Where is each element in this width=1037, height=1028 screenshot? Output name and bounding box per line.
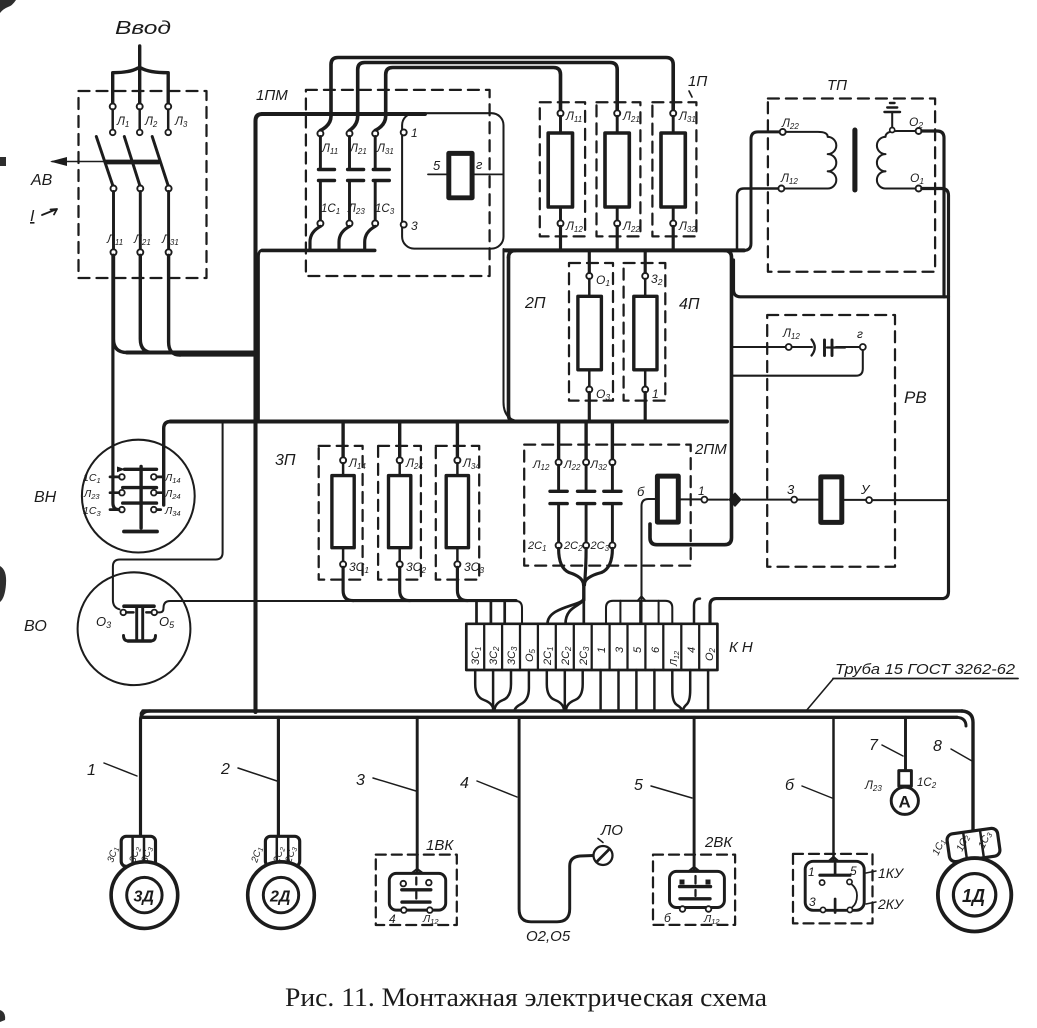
svg-text:2С3: 2С3	[590, 540, 610, 553]
svg-text:3Д: 3Д	[134, 889, 155, 906]
wire bundle right end to motor 1Д	[962, 711, 973, 830]
wire О5 to terminal block	[157, 601, 522, 624]
switch 1ВК dashed box	[376, 855, 457, 925]
svg-text:1ПМ: 1ПМ	[256, 87, 288, 104]
wire bus riser to ТП Л22	[744, 132, 780, 251]
transformer ТП primary winding	[784, 132, 836, 189]
svg-text:Л22: Л22	[622, 221, 640, 234]
fuse 1П-1	[548, 110, 572, 250]
svg-text:4П: 4П	[679, 296, 700, 313]
svg-text:ЛО: ЛО	[600, 822, 623, 839]
contactor 2ПМ NC contact 3	[604, 422, 621, 549]
fuse 4П	[634, 250, 657, 421]
svg-text:2ПМ: 2ПМ	[694, 441, 727, 458]
wire block bottom lead О2	[707, 670, 709, 711]
wire 1ПМ phase C to fuse 1П-1	[375, 68, 560, 131]
wire 2С bundle to block	[582, 583, 585, 600]
wire drop 6 to switch КУ	[832, 717, 834, 861]
main vertical bus	[256, 114, 263, 712]
breaker АВ dashed box	[79, 91, 207, 278]
switch ВО terminal О3	[121, 610, 127, 616]
switch 2ВК dashed box	[653, 855, 735, 925]
РВ contact terminal 2	[860, 344, 866, 350]
fuse 2П	[578, 250, 602, 421]
svg-text:б: б	[637, 484, 645, 499]
svg-text:О2: О2	[909, 115, 923, 130]
relay РВ dashed box	[767, 315, 895, 567]
wire block bottom leads 1 3 5 6	[601, 670, 655, 711]
breaker АВ blade 2	[124, 137, 140, 188]
wire 1ПМ bottom bus	[262, 249, 375, 253]
bell А	[891, 787, 918, 814]
svg-text:Л12: Л12	[780, 173, 798, 186]
svg-text:РВ: РВ	[904, 388, 927, 407]
switch ВО terminal О5	[152, 610, 158, 616]
fuse 3П dashed box 3	[436, 446, 479, 580]
svg-text:8: 8	[933, 738, 942, 755]
fuse 3П-1	[332, 422, 354, 601]
wire О2 to right bus	[922, 131, 944, 297]
svg-text:2КУ: 2КУ	[877, 896, 905, 912]
svg-text:Л34: Л34	[462, 458, 480, 471]
wire left bus to main vertical	[127, 350, 254, 354]
svg-text:6: 6	[650, 646, 662, 653]
motor 1Д terminal box	[946, 828, 1000, 863]
svg-text:5: 5	[433, 158, 441, 173]
switch ВН right terminals	[151, 474, 164, 512]
wire drop 7 to bell А	[904, 717, 907, 770]
wire 1ПМ bottom contact 2 to bus	[339, 226, 350, 250]
wire 2С2 down	[585, 548, 587, 585]
contactor 1ПМ contact 3	[372, 131, 389, 227]
switch ВН shaft and bars	[117, 466, 157, 531]
wire 1ПМ bottom bus corner down	[259, 250, 263, 421]
svg-text:4: 4	[686, 647, 698, 653]
svg-text:Л32: Л32	[678, 221, 696, 234]
wire У to right bus	[872, 499, 948, 501]
2ПМ coil terminal 1	[701, 497, 707, 503]
svg-text:1: 1	[808, 865, 815, 879]
coil 1ПМ winding	[449, 153, 472, 197]
svg-text:Ввод: Ввод	[115, 18, 171, 38]
wire coil 2ПМ б terminal to block	[642, 499, 658, 624]
fuse 1П dashed box 3	[652, 102, 696, 236]
svg-text:О1: О1	[596, 273, 610, 288]
svg-text:Л31: Л31	[678, 111, 696, 124]
svg-text:3С2: 3С2	[406, 560, 426, 575]
pipe bundle (two parallel lines)	[143, 709, 962, 712]
wire block drop 3С1	[475, 601, 478, 624]
switch 1ВК body	[389, 869, 445, 913]
breaker АВ trip bar	[106, 160, 159, 165]
svg-text:О5: О5	[159, 614, 175, 630]
wire РВ contact return	[732, 350, 863, 376]
svg-text:1: 1	[87, 762, 96, 779]
transformer ТП core	[852, 130, 857, 190]
wire drop 2 to motor 2Д	[277, 717, 280, 835]
contactor 1ПМ dashed box	[306, 90, 490, 276]
terminal block КН	[466, 624, 717, 670]
svg-text:Л1: Л1	[116, 116, 129, 129]
wire РВ terminal 3 to coil	[797, 499, 820, 501]
svg-text:2ВК: 2ВК	[704, 834, 733, 851]
wire block bottom lead О5	[515, 670, 529, 711]
svg-text:Л12: Л12	[565, 221, 583, 234]
breaker АВ blade bottom contacts	[111, 186, 117, 192]
wire О1 to right bus	[710, 189, 949, 624]
svg-text:3С3: 3С3	[464, 560, 484, 575]
wire bundle left vertical	[509, 257, 516, 421]
wire 1ПМ phase A to fuse 1П-3	[320, 58, 673, 131]
breaker АВ pole terminals top	[110, 104, 116, 110]
svg-text:3: 3	[356, 772, 365, 789]
switch ВО circle	[78, 572, 191, 685]
breaker АВ bottom terminals	[111, 249, 117, 255]
svg-text:7: 7	[869, 737, 879, 754]
svg-text:О3: О3	[596, 387, 610, 402]
svg-text:АВ: АВ	[30, 172, 53, 189]
svg-text:32: 32	[651, 272, 663, 287]
fuse 1П-2	[605, 110, 629, 250]
contactor 2ПМ dashed box	[524, 445, 691, 566]
transformer ТП primary terminal Л12	[778, 186, 784, 192]
wire 2С3 down	[584, 548, 612, 585]
svg-text:Л21: Л21	[622, 111, 640, 124]
svg-text:1КУ: 1КУ	[878, 865, 905, 881]
svg-text:2С1: 2С1	[527, 540, 547, 553]
svg-text:1С1: 1С1	[83, 472, 101, 485]
switch ВО symbol	[124, 606, 156, 641]
fuse 3П-3	[446, 422, 468, 601]
svg-text:1ВК: 1ВК	[426, 837, 454, 854]
wire ТП bottom bus	[734, 260, 949, 297]
svg-text:Труба 15 ГОСТ 3262-62: Труба 15 ГОСТ 3262-62	[835, 662, 1015, 678]
svg-text:У: У	[860, 482, 871, 497]
svg-text:2П: 2П	[524, 295, 546, 312]
lamp ЛО	[594, 846, 613, 865]
switch КУ body	[805, 857, 864, 913]
motor 3Д terminal box	[121, 836, 155, 866]
svg-text:Л23: Л23	[83, 488, 100, 501]
svg-text:3П: 3П	[275, 452, 296, 469]
breaker АВ blade 3	[152, 137, 168, 188]
svg-text:3: 3	[614, 646, 626, 653]
wire 1ПМ bottom contact 3 to bus	[365, 226, 376, 250]
transformer ТП secondary terminal О2	[916, 128, 922, 134]
svg-text:2С1: 2С1	[249, 845, 265, 865]
transformer ТП primary terminal Л22	[780, 129, 786, 135]
wire block bottom leads group 3С	[475, 670, 493, 711]
wire 3С bus to block	[353, 599, 516, 602]
РВ coil terminal У	[866, 497, 872, 503]
svg-text:5: 5	[634, 777, 643, 794]
breaker АВ lower leads	[114, 192, 169, 250]
fuse 3П-2	[389, 422, 411, 601]
junction diamond	[729, 493, 741, 506]
fuse 4П dashed box	[624, 263, 666, 401]
breaker АВ pole leads	[113, 110, 169, 130]
svg-text:5: 5	[850, 864, 857, 878]
wire control bus horizontal	[171, 420, 728, 424]
wire 2С1 down	[559, 548, 584, 585]
wire drop 5 to switch 2ВК	[693, 717, 696, 869]
svg-text:Л2: Л2	[144, 116, 158, 129]
svg-text:ВО: ВО	[24, 618, 47, 635]
svg-text:б: б	[664, 911, 672, 925]
svg-text:Л23: Л23	[864, 780, 882, 793]
breaker АВ actuator arrow	[52, 161, 158, 163]
svg-text:1П: 1П	[688, 73, 707, 90]
svg-text:3С1: 3С1	[105, 845, 121, 864]
svg-text:Л22: Л22	[781, 118, 799, 131]
svg-text:Л23: Л23	[347, 203, 365, 216]
fuse 3П dashed box 1	[319, 446, 363, 580]
svg-text:Л11: Л11	[321, 143, 338, 156]
svg-text:б: б	[785, 777, 795, 794]
wire 1ПМ bottom contact 1 to bus	[310, 226, 320, 250]
svg-text:2: 2	[220, 761, 230, 778]
motor 2Д	[248, 862, 315, 929]
wire block bottom leads group 2С	[547, 670, 564, 711]
wire branch to block cell 4	[694, 599, 700, 624]
fuse 1П dashed box 2	[597, 102, 641, 236]
wire АВ phase 3 to left bus	[169, 255, 180, 355]
wire block drop 3С2	[490, 601, 493, 624]
РВ contact terminal Л12	[786, 344, 792, 350]
svg-text:2С2: 2С2	[563, 540, 583, 553]
svg-text:3: 3	[787, 482, 795, 497]
motor 1Д	[938, 858, 1011, 931]
svg-text:1С3: 1С3	[83, 505, 101, 518]
contactor 2ПМ NC contact 1	[550, 422, 567, 549]
transformer ТП secondary winding	[877, 131, 916, 189]
wire control bus drop to ВО О3	[113, 423, 223, 609]
svg-text:Л3: Л3	[174, 116, 188, 129]
wire drop 1 to motor 3Д	[141, 711, 151, 835]
wire bundle right vertical	[650, 250, 732, 544]
svg-text:Л24: Л24	[164, 488, 181, 501]
svg-text:1С1: 1С1	[321, 203, 340, 216]
wire АВ phase 1 to left bus	[114, 255, 128, 352]
svg-text:1С2: 1С2	[917, 777, 937, 790]
svg-text:Л32: Л32	[590, 459, 608, 472]
wire fuse bottom bus	[505, 248, 744, 252]
wire split left	[113, 68, 138, 106]
wire block drop 3С3	[503, 601, 506, 624]
svg-text:1Д: 1Д	[962, 886, 985, 906]
svg-text:Рис. 11. Монтажная электричес: Рис. 11. Монтажная электрическая схема	[285, 983, 767, 1012]
transformer ТП secondary terminal О1	[916, 186, 922, 192]
motor 2Д terminal box	[265, 836, 299, 866]
wire coil 2ПМ terminal 1 to diamond	[708, 499, 729, 501]
svg-text:О1: О1	[910, 171, 924, 186]
contactor 1ПМ contact 1	[317, 131, 334, 227]
switch КУ dashed box	[793, 854, 873, 924]
svg-text:ТП: ТП	[827, 77, 847, 94]
svg-text:Л11: Л11	[565, 111, 582, 124]
svg-text:5: 5	[632, 646, 644, 653]
switch ВН circle	[82, 440, 195, 553]
wire 1ПМ phase B to fuse 1П-2	[350, 63, 618, 131]
breaker АВ blade 1	[96, 137, 113, 188]
coil block 1ПМ outer loop	[402, 113, 503, 248]
wire block comb cells 1-Л12	[606, 601, 672, 624]
svg-text:О3: О3	[96, 614, 111, 630]
svg-text:I: I	[30, 208, 35, 225]
wire coil 2ПМ to terminal 1	[678, 498, 701, 500]
svg-text:А: А	[899, 793, 911, 812]
svg-text:3С1: 3С1	[349, 560, 369, 575]
bell А holder	[899, 771, 912, 787]
svg-text:Л34: Л34	[164, 505, 181, 518]
svg-text:1: 1	[411, 126, 418, 140]
coil 1ПМ terminal 1	[401, 129, 407, 135]
svg-text:4: 4	[460, 775, 469, 792]
fuse 1П-3	[661, 110, 685, 250]
wire drop 3 to switch 1ВК	[416, 717, 419, 871]
wire top bus into coil block	[262, 112, 425, 116]
fuse 2П dashed box	[569, 263, 613, 401]
motor 3Д	[111, 862, 178, 929]
wire split right	[141, 68, 168, 106]
svg-text:Л12: Л12	[782, 328, 800, 341]
contactor 2ПМ NC contact 2	[578, 422, 595, 549]
wire ВН right riser to control bus	[164, 422, 171, 506]
wire diamond to РВ coil	[742, 499, 791, 501]
svg-text:2Д: 2Д	[269, 889, 291, 906]
breaker АВ second contacts	[110, 130, 116, 136]
fuse 3П dashed box 2	[378, 446, 421, 580]
svg-text:Л31: Л31	[376, 143, 394, 156]
svg-text:КН: КН	[729, 639, 757, 656]
svg-text:Л12: Л12	[422, 913, 439, 926]
wire coil 1ПМ terminal 2 lead	[472, 173, 503, 175]
svg-text:ВН: ВН	[34, 489, 57, 506]
svg-text:1: 1	[596, 647, 608, 653]
svg-text:Л12: Л12	[703, 913, 720, 926]
wire drop 4 to lamp ЛО	[519, 717, 593, 922]
wire block bottom leads Л12 and 4	[672, 670, 682, 711]
РВ coil terminal 3	[791, 497, 797, 503]
wire coil РВ to terminal У	[842, 499, 866, 501]
svg-text:О2,О5: О2,О5	[526, 928, 571, 945]
switch 2ВК body	[670, 867, 725, 912]
ground symbol	[885, 103, 901, 133]
svg-text:3: 3	[809, 895, 816, 909]
wire to РВ contact Л12	[732, 346, 786, 348]
switch ВН left terminals	[110, 474, 125, 512]
wire coil 1ПМ terminal 5 lead	[428, 173, 449, 175]
coil РВ winding	[821, 477, 842, 523]
wire coil block drop to control bus	[504, 249, 521, 422]
wire feeder from Ввод	[138, 46, 141, 106]
svg-text:г: г	[857, 327, 863, 341]
svg-text:1С3: 1С3	[375, 203, 395, 216]
fuse 1П dashed box 1	[540, 102, 585, 236]
svg-text:Л11: Л11	[106, 234, 123, 247]
svg-text:1: 1	[652, 387, 659, 401]
svg-text:Л22: Л22	[563, 459, 581, 472]
svg-text:1: 1	[698, 484, 705, 498]
coil 2ПМ winding	[657, 476, 678, 522]
wire bus riser to ТП Л12	[737, 189, 778, 251]
leader to pipe	[806, 679, 833, 711]
transformer ТП dashed box	[768, 99, 935, 272]
wire АВ phase 2 to left bus	[140, 255, 153, 352]
svg-text:4: 4	[389, 912, 396, 926]
contactor 1ПМ contact 2	[347, 131, 364, 227]
svg-text:Л14: Л14	[164, 472, 181, 485]
svg-text:г: г	[476, 157, 483, 172]
РВ timed contact element	[792, 340, 860, 356]
wire drop to ВН left	[113, 255, 119, 509]
svg-text:3: 3	[411, 219, 418, 233]
svg-text:Л12: Л12	[532, 459, 550, 472]
svg-text:Л21: Л21	[133, 234, 151, 247]
svg-text:Л21: Л21	[349, 143, 367, 156]
coil 1ПМ terminal 3	[401, 222, 407, 228]
